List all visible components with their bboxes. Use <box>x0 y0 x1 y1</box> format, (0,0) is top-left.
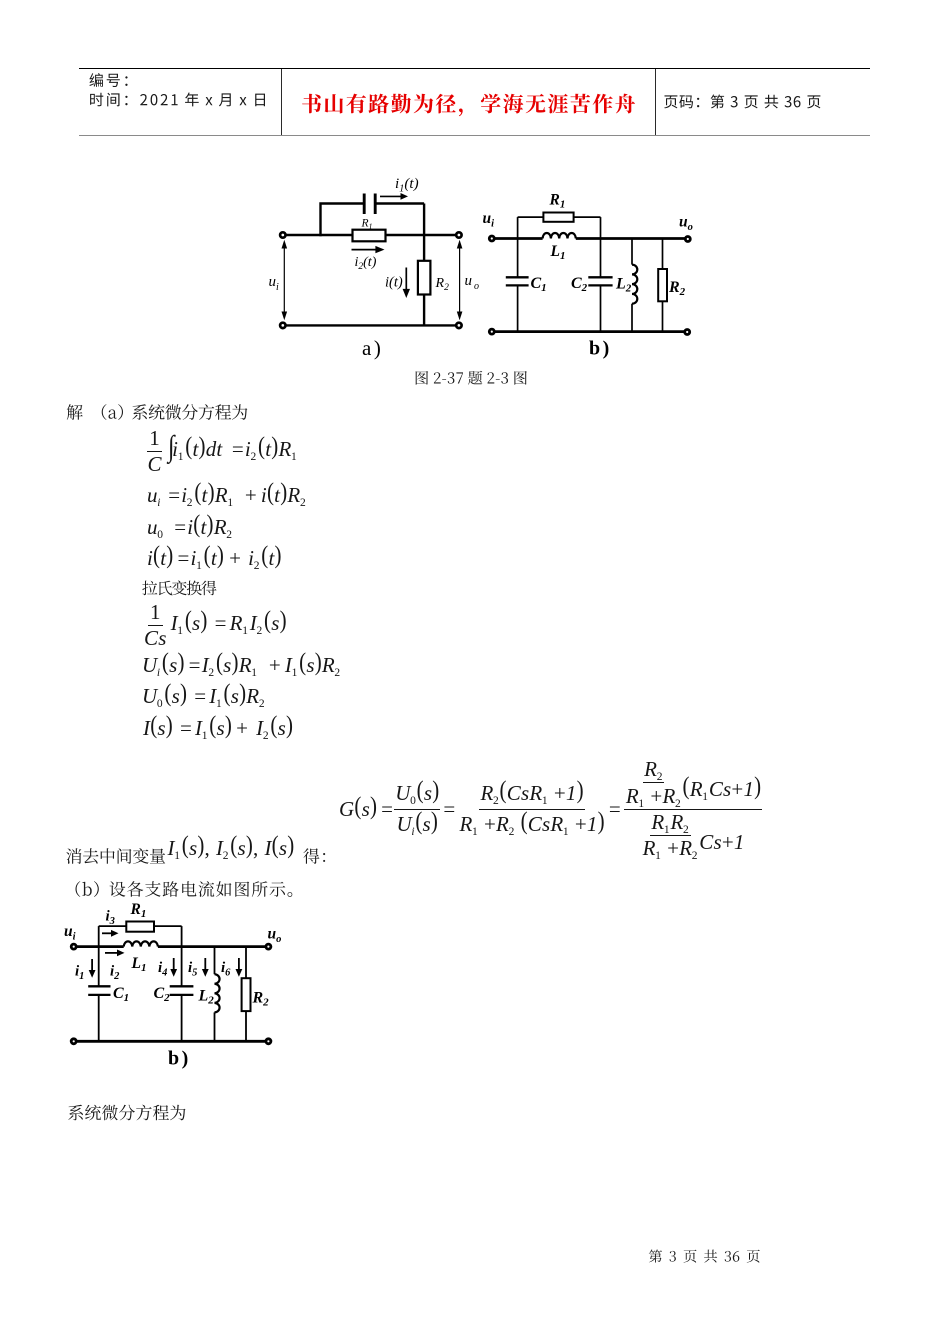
equation 1: 1/C integral i1(t)dt = i2(t)R1 <box>146 432 299 470</box>
capacitor C (series feedback capacitor) <box>364 194 375 215</box>
svg-text:C2: C2 <box>571 275 588 294</box>
terminal input top <box>71 944 76 949</box>
wire bottom rail (input bottom to output bottom) <box>283 324 459 326</box>
svg-text:ui: ui <box>64 923 76 943</box>
svg-text:C2: C2 <box>154 985 171 1004</box>
svg-text:i6: i6 <box>221 960 231 979</box>
resistor R1 <box>543 213 573 222</box>
terminal output bottom <box>456 323 461 328</box>
wire C2 branch lower <box>181 995 183 1041</box>
wire C1 branch lower <box>517 285 519 331</box>
wire L2 branch bottom <box>631 304 633 332</box>
terminal output top <box>685 237 690 242</box>
circuit b) repeated with branch currents <box>58 898 290 1080</box>
resistor R1 <box>126 922 154 932</box>
svg-text:R2: R2 <box>435 276 450 293</box>
header divider 1 <box>281 69 282 135</box>
svg-text:uo: uo <box>679 214 693 234</box>
equation 2: ui = i2(t)R1 + i(t)R2 <box>147 485 308 506</box>
wire C2 branch upper <box>600 217 602 277</box>
wire main rail left segment <box>74 945 124 948</box>
capacitor C2 <box>170 986 194 995</box>
terminal input bottom <box>489 329 494 334</box>
wire R1 parallel branch top <box>99 925 182 927</box>
wire R1 parallel branch top <box>518 216 601 218</box>
wire C1 branch upper <box>98 926 100 986</box>
resistor R2 <box>658 269 667 301</box>
wire R2 branch bottom <box>245 1011 247 1041</box>
terminal input bottom <box>71 1039 76 1044</box>
wire capacitor branch riser <box>321 204 364 237</box>
svg-text:i(t): i(t) <box>385 275 403 291</box>
svg-text:b): b) <box>168 1048 188 1070</box>
inline math I1(s),I2(s),I(s) in the elimination line <box>168 838 295 859</box>
capacitor C1 <box>88 986 110 995</box>
current arrow i5 <box>204 958 206 970</box>
equation 6: Ui(s) = I2(s)R1 + I1(s)R2 <box>142 655 342 676</box>
G(s) transfer-function equation <box>339 757 762 861</box>
capacitor C2 <box>588 277 612 285</box>
terminal input top <box>489 236 494 241</box>
terminal output bottom <box>685 330 690 335</box>
svg-text:R1: R1 <box>549 192 566 211</box>
svg-text:R1: R1 <box>130 901 147 920</box>
wire R2 branch bottom <box>662 301 664 331</box>
voltage arrow ui <box>283 247 285 314</box>
wire C1 branch lower <box>98 995 100 1041</box>
svg-text:L1: L1 <box>131 955 147 974</box>
svg-text:i2(t): i2(t) <box>355 255 377 272</box>
wire capacitor to node B <box>376 202 424 204</box>
wire bottom rail <box>492 330 687 333</box>
terminal input top <box>280 232 285 237</box>
inductor L1 <box>124 941 158 946</box>
wire L2 branch bottom <box>214 1012 216 1041</box>
current arrow i(t) <box>405 268 407 290</box>
svg-text:ui: ui <box>483 210 495 230</box>
svg-text:L2: L2 <box>198 988 215 1007</box>
resistor R2 <box>242 978 251 1011</box>
wire C2 branch upper <box>181 926 183 986</box>
voltage arrow uo <box>459 247 461 314</box>
wire right branch (node B down through R2) <box>423 204 425 326</box>
circuit a) <box>265 170 487 365</box>
svg-text:i1: i1 <box>75 964 84 983</box>
current arrow i1(t) <box>380 195 401 197</box>
svg-text:i3: i3 <box>106 909 115 928</box>
wire C1 branch upper <box>517 217 519 277</box>
header bottom rule <box>79 135 870 137</box>
terminal output top <box>266 944 271 949</box>
svg-text:i5: i5 <box>188 960 197 979</box>
svg-text:i2: i2 <box>110 964 120 983</box>
wire L2 branch top <box>214 947 216 975</box>
wire L2 branch top <box>631 239 633 265</box>
capacitor C1 <box>506 277 529 285</box>
equation 8: I(s) = I1(s) + I2(s) <box>143 718 293 739</box>
current arrow i4 <box>173 958 175 970</box>
wire main rail left segment <box>492 237 543 240</box>
svg-text:uo: uo <box>268 926 282 946</box>
inductor L2 <box>215 974 220 1012</box>
terminal output bottom <box>266 1039 271 1044</box>
resistor R2 <box>418 261 431 295</box>
wire R2 branch top <box>245 947 247 979</box>
current arrow i1 <box>91 959 93 971</box>
svg-text:C1: C1 <box>113 985 129 1004</box>
current arrow i3 <box>102 932 112 934</box>
equation 5: 1/Cs I1(s) = R1 I2(s) <box>142 606 287 644</box>
svg-text:L2: L2 <box>615 276 632 295</box>
svg-text:i1(t): i1(t) <box>395 176 419 195</box>
svg-text:i4: i4 <box>158 960 167 979</box>
terminal output top <box>456 232 461 237</box>
svg-text:C1: C1 <box>531 275 547 294</box>
equation 4: i(t) = i1(t) + i2(t) <box>147 548 282 569</box>
wire R2 branch top <box>662 239 664 270</box>
terminal input bottom <box>280 323 285 328</box>
wire main rail right segment <box>158 945 269 948</box>
inductor L1 <box>543 233 576 239</box>
svg-text:b): b) <box>589 338 609 360</box>
svg-text:a): a) <box>362 336 381 360</box>
current arrow i2 <box>105 952 118 954</box>
wire top rail (input top to output top) <box>283 234 459 236</box>
current arrow i6 <box>238 958 240 970</box>
current arrow i2(t) <box>352 249 377 251</box>
svg-text:R2: R2 <box>252 990 270 1009</box>
header top rule <box>79 68 870 70</box>
wire main rail right segment <box>576 237 688 240</box>
equation 7: U0(s) = I1(s)R2 <box>142 686 266 707</box>
svg-text:R1: R1 <box>361 218 373 232</box>
inductor L2 <box>632 265 637 304</box>
header divider 2 <box>655 69 656 135</box>
equation 3: u0 = i(t)R2 <box>147 517 234 538</box>
wire bottom rail <box>74 1040 269 1043</box>
circuit b) <box>475 190 710 370</box>
resistor R1 <box>353 230 386 242</box>
svg-text:R2: R2 <box>668 279 686 298</box>
svg-text:L1: L1 <box>550 243 566 262</box>
svg-text:ui: ui <box>269 274 280 293</box>
wire C2 branch lower <box>600 285 602 331</box>
